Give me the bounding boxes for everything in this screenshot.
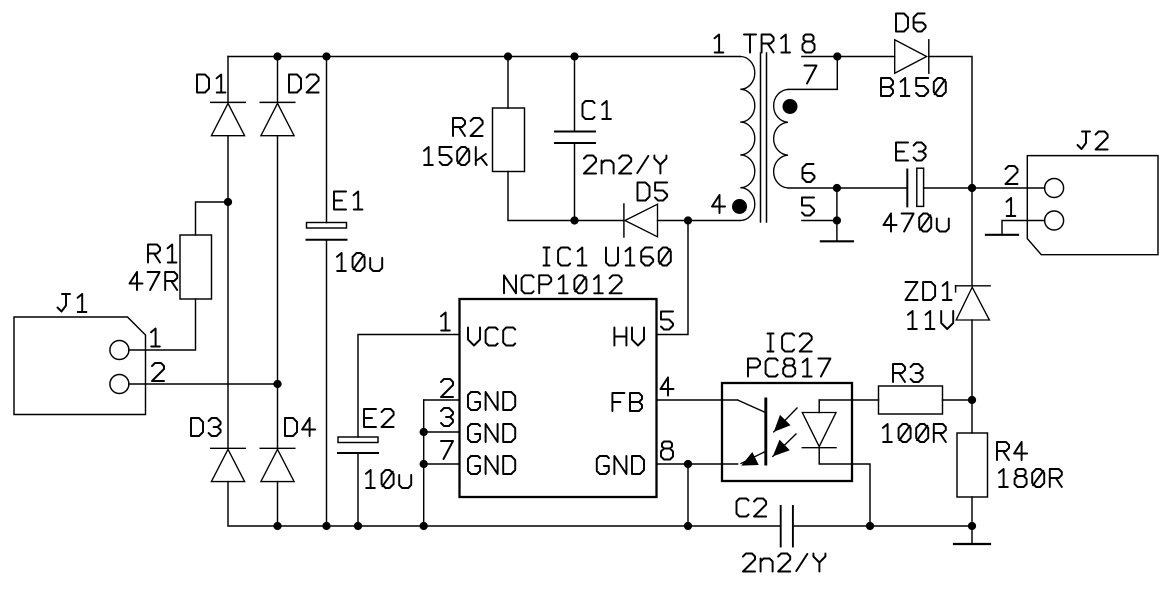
wire ZD1 top bbox=[971, 188, 973, 286]
junction dot pin6 bbox=[833, 184, 841, 192]
junction dot E2 bottom bbox=[354, 522, 362, 530]
arrow IC2 light 2 bbox=[773, 434, 796, 456]
junction dot out bbox=[968, 184, 976, 192]
label D6 bbox=[896, 14, 926, 32]
junction dot pin8-pin7 bbox=[833, 52, 841, 60]
label IC1 pin 3 bbox=[441, 408, 453, 426]
label TR1 bbox=[744, 35, 790, 53]
label R3 bbox=[893, 364, 923, 382]
label C1 value 2n2/Y bbox=[584, 156, 666, 174]
wire IC1 pin7 stub bbox=[424, 463, 460, 465]
wire FB bbox=[657, 399, 738, 401]
wire R2 top bbox=[507, 57, 509, 109]
capacitor E3 bbox=[907, 168, 923, 206]
wire IC1 pin2 stub bbox=[424, 399, 460, 401]
diode D1 bbox=[211, 102, 246, 135]
junction dot R3-ZD1 bbox=[968, 396, 976, 404]
wire TR1 pin5 stub bbox=[802, 220, 837, 222]
led IC2 cathode bar bbox=[802, 447, 836, 449]
junction dot pin8 bus bbox=[684, 522, 692, 530]
label D5 bbox=[638, 183, 668, 201]
label 47R bbox=[130, 272, 178, 290]
label J2 bbox=[1078, 132, 1108, 150]
wire D3 bottom bbox=[228, 482, 278, 526]
label D3 bbox=[191, 418, 221, 436]
junction dot D2 top bbox=[273, 52, 281, 60]
label E1 value 10u bbox=[337, 253, 382, 271]
junction dot IC2 out bbox=[866, 522, 874, 530]
label E2 value 10u bbox=[366, 470, 411, 488]
transistor IC2 base bar bbox=[764, 399, 767, 464]
led IC2 triangle bbox=[802, 413, 836, 447]
junction dot pin5 bbox=[833, 216, 841, 224]
label E1 bbox=[334, 192, 362, 210]
ground TR1 pin5 bbox=[821, 240, 853, 242]
label D4 bbox=[285, 418, 315, 436]
label R4 value 180R bbox=[999, 469, 1062, 487]
polarity dot TR1 pin7 bbox=[783, 99, 798, 114]
wire D1-D3 bbox=[227, 136, 229, 449]
wire J2 pin1 bbox=[1002, 221, 1045, 235]
label R4 bbox=[997, 442, 1027, 460]
diode D3 bbox=[211, 448, 246, 481]
wire D2 top bbox=[277, 57, 279, 103]
junction dot pin2-D2 bbox=[273, 380, 281, 388]
label D1 bbox=[197, 75, 225, 93]
wire E2 bottom bbox=[357, 453, 359, 526]
label IC1 VCC bbox=[468, 328, 515, 346]
label TR1 pin 5 bbox=[802, 198, 814, 216]
label IC1 pin 7 bbox=[441, 441, 453, 459]
wire pin8 bbox=[657, 463, 738, 465]
wire D6 out bbox=[929, 57, 972, 189]
wire D2-D4 bbox=[277, 136, 279, 449]
pin circle J2-1 bbox=[1045, 211, 1064, 230]
label IC1 HV bbox=[614, 328, 644, 346]
wire E1 top bbox=[326, 57, 328, 223]
label U160 bbox=[606, 248, 671, 266]
label C1 bbox=[583, 101, 611, 119]
wire pin6 gnd bbox=[836, 188, 838, 241]
led IC2 anode bbox=[818, 400, 820, 413]
ground J2 pin1 bbox=[986, 234, 1018, 236]
diode D2 bbox=[260, 102, 295, 135]
label E3 bbox=[896, 143, 926, 161]
junction dot E1 bottom bbox=[322, 522, 330, 530]
label D6 value B150 bbox=[881, 78, 946, 96]
pin circle J1-1 bbox=[110, 341, 129, 360]
wire E1 bottom bbox=[326, 240, 328, 526]
label J1 pin 1 bbox=[151, 329, 160, 347]
junction dot HV-TR4 bbox=[684, 216, 692, 224]
label J1 bbox=[58, 294, 87, 312]
connector J1 bbox=[14, 317, 146, 415]
label IC1 pin 5 bbox=[661, 312, 673, 330]
wire D1 top bbox=[227, 57, 229, 103]
capacitor E2 bbox=[338, 437, 378, 453]
wire R2 bottom bbox=[508, 172, 575, 221]
label IC2 PC817 bbox=[748, 359, 830, 377]
wire TR1 pin6 bbox=[788, 187, 907, 189]
label R3 value 100R bbox=[883, 424, 946, 442]
junction dot pin3 bbox=[420, 428, 428, 436]
label IC1 pin 2 bbox=[441, 379, 453, 397]
wire TR1 pin7 bbox=[788, 57, 837, 90]
wire IC1 pin3 stub bbox=[424, 431, 460, 433]
wire R4 top bbox=[971, 400, 973, 433]
wire bottom bus left bbox=[278, 525, 781, 527]
transistor IC2 collector bbox=[738, 400, 765, 412]
resistor R4 bbox=[957, 433, 988, 497]
label E3 value 470u bbox=[884, 214, 949, 232]
junction dot D4 bottom bbox=[273, 522, 281, 530]
capacitor E1 bbox=[307, 223, 347, 240]
junction dot pin7 bbox=[420, 460, 428, 468]
label IC2 bbox=[768, 334, 812, 352]
label IC1 FB bbox=[612, 393, 642, 411]
label IC1 pin 8 bbox=[661, 442, 673, 460]
wire R4 bottom bbox=[971, 497, 973, 526]
label IC1 GND pin2 bbox=[468, 392, 515, 410]
transformer TR1 primary winding bbox=[740, 57, 755, 221]
transformer TR1 core bbox=[761, 53, 767, 222]
wire top bus bbox=[228, 56, 740, 58]
wire C1 bottom bbox=[574, 143, 576, 221]
wire R1 bottom bbox=[129, 299, 196, 350]
label J2 pin 1 bbox=[1007, 198, 1016, 216]
capacitor C1 bbox=[555, 132, 595, 144]
label C2 bbox=[737, 499, 767, 517]
diode D5 bbox=[624, 204, 658, 237]
wire bottom bus right bbox=[793, 525, 972, 527]
ic IC1 box bbox=[460, 299, 657, 497]
transistor IC2 emitter bbox=[741, 452, 764, 466]
wire E3 out bbox=[924, 187, 1045, 189]
label R1 bbox=[148, 245, 176, 263]
resistor R3 bbox=[879, 386, 943, 414]
label D2 bbox=[289, 75, 319, 93]
junction dot R2 top bbox=[504, 52, 512, 60]
wire IC2-R3 bbox=[819, 399, 878, 401]
diode D4 bbox=[260, 448, 295, 481]
wire pin8 down bbox=[687, 464, 689, 526]
label TR1 pin 1 bbox=[715, 35, 724, 53]
label TR1 pin 8 bbox=[803, 35, 815, 53]
zener ZD1 bbox=[956, 286, 991, 320]
wire TR1 pin8-D6 bbox=[802, 56, 895, 58]
junction dot pin8 bbox=[684, 460, 692, 468]
label R2 bbox=[453, 118, 483, 136]
label R2 value 150k bbox=[424, 147, 487, 165]
label E2 bbox=[364, 409, 394, 427]
wire D4 bottom bbox=[277, 482, 279, 526]
label NCP1012 bbox=[504, 275, 622, 293]
junction dot R1-D1 bbox=[224, 198, 232, 206]
label IC1 bbox=[544, 248, 587, 266]
label J2 pin 2 bbox=[1006, 166, 1018, 184]
junction dot R4 bottom bbox=[968, 522, 976, 530]
label ZD1 value 11V bbox=[908, 311, 953, 329]
label TR1 pin 4 bbox=[712, 195, 725, 213]
label IC1 GND pin3 bbox=[468, 424, 515, 442]
wire C1-D5 bbox=[575, 220, 624, 222]
wire VCC/E2 bbox=[358, 335, 460, 438]
capacitor C2 bbox=[781, 506, 793, 547]
label ZD1 bbox=[906, 282, 952, 300]
wire R3 out bbox=[943, 399, 973, 401]
polarity dot TR1 pin4 bbox=[732, 199, 747, 214]
junction dot C1 bottom bbox=[570, 216, 578, 224]
wire GND column bbox=[423, 400, 425, 526]
pin circle J1-2 bbox=[110, 375, 129, 394]
junction dot E1 top bbox=[322, 52, 330, 60]
label TR1 pin 7 bbox=[805, 66, 817, 84]
wire C1 top bbox=[574, 57, 576, 132]
led IC2 cathode wire bbox=[819, 448, 870, 526]
pin circle J2-2 bbox=[1045, 179, 1064, 198]
transformer TR1 secondary winding bbox=[774, 89, 788, 188]
label J1 pin 2 bbox=[152, 363, 164, 381]
resistor R1 bbox=[180, 235, 212, 299]
junction dot GND col bottom bbox=[420, 522, 428, 530]
resistor R2 bbox=[493, 108, 525, 172]
label C2 value 2n2/Y bbox=[743, 554, 825, 572]
connector J2 bbox=[1027, 156, 1158, 255]
arrow IC2 light 1 bbox=[774, 408, 797, 432]
wire HV stub bbox=[657, 221, 689, 335]
junction dot C1 top bbox=[570, 52, 578, 60]
label IC1 GND pin8 bbox=[597, 456, 644, 474]
wire J1 pin2 bbox=[129, 383, 278, 385]
label TR1 pin 6 bbox=[803, 164, 815, 182]
wire ZD1 bottom bbox=[971, 320, 973, 400]
label IC1 pin 4 bbox=[661, 378, 674, 396]
diode D6 bbox=[895, 40, 929, 73]
wire R1 top bbox=[196, 202, 229, 235]
wire R4 gnd stub bbox=[971, 526, 973, 544]
label IC1 pin 1 bbox=[441, 313, 450, 331]
wire D5-TR4 bbox=[658, 220, 741, 222]
ground output bbox=[954, 543, 990, 545]
ic IC2 box bbox=[722, 383, 852, 481]
label IC1 GND pin7 bbox=[468, 456, 515, 474]
